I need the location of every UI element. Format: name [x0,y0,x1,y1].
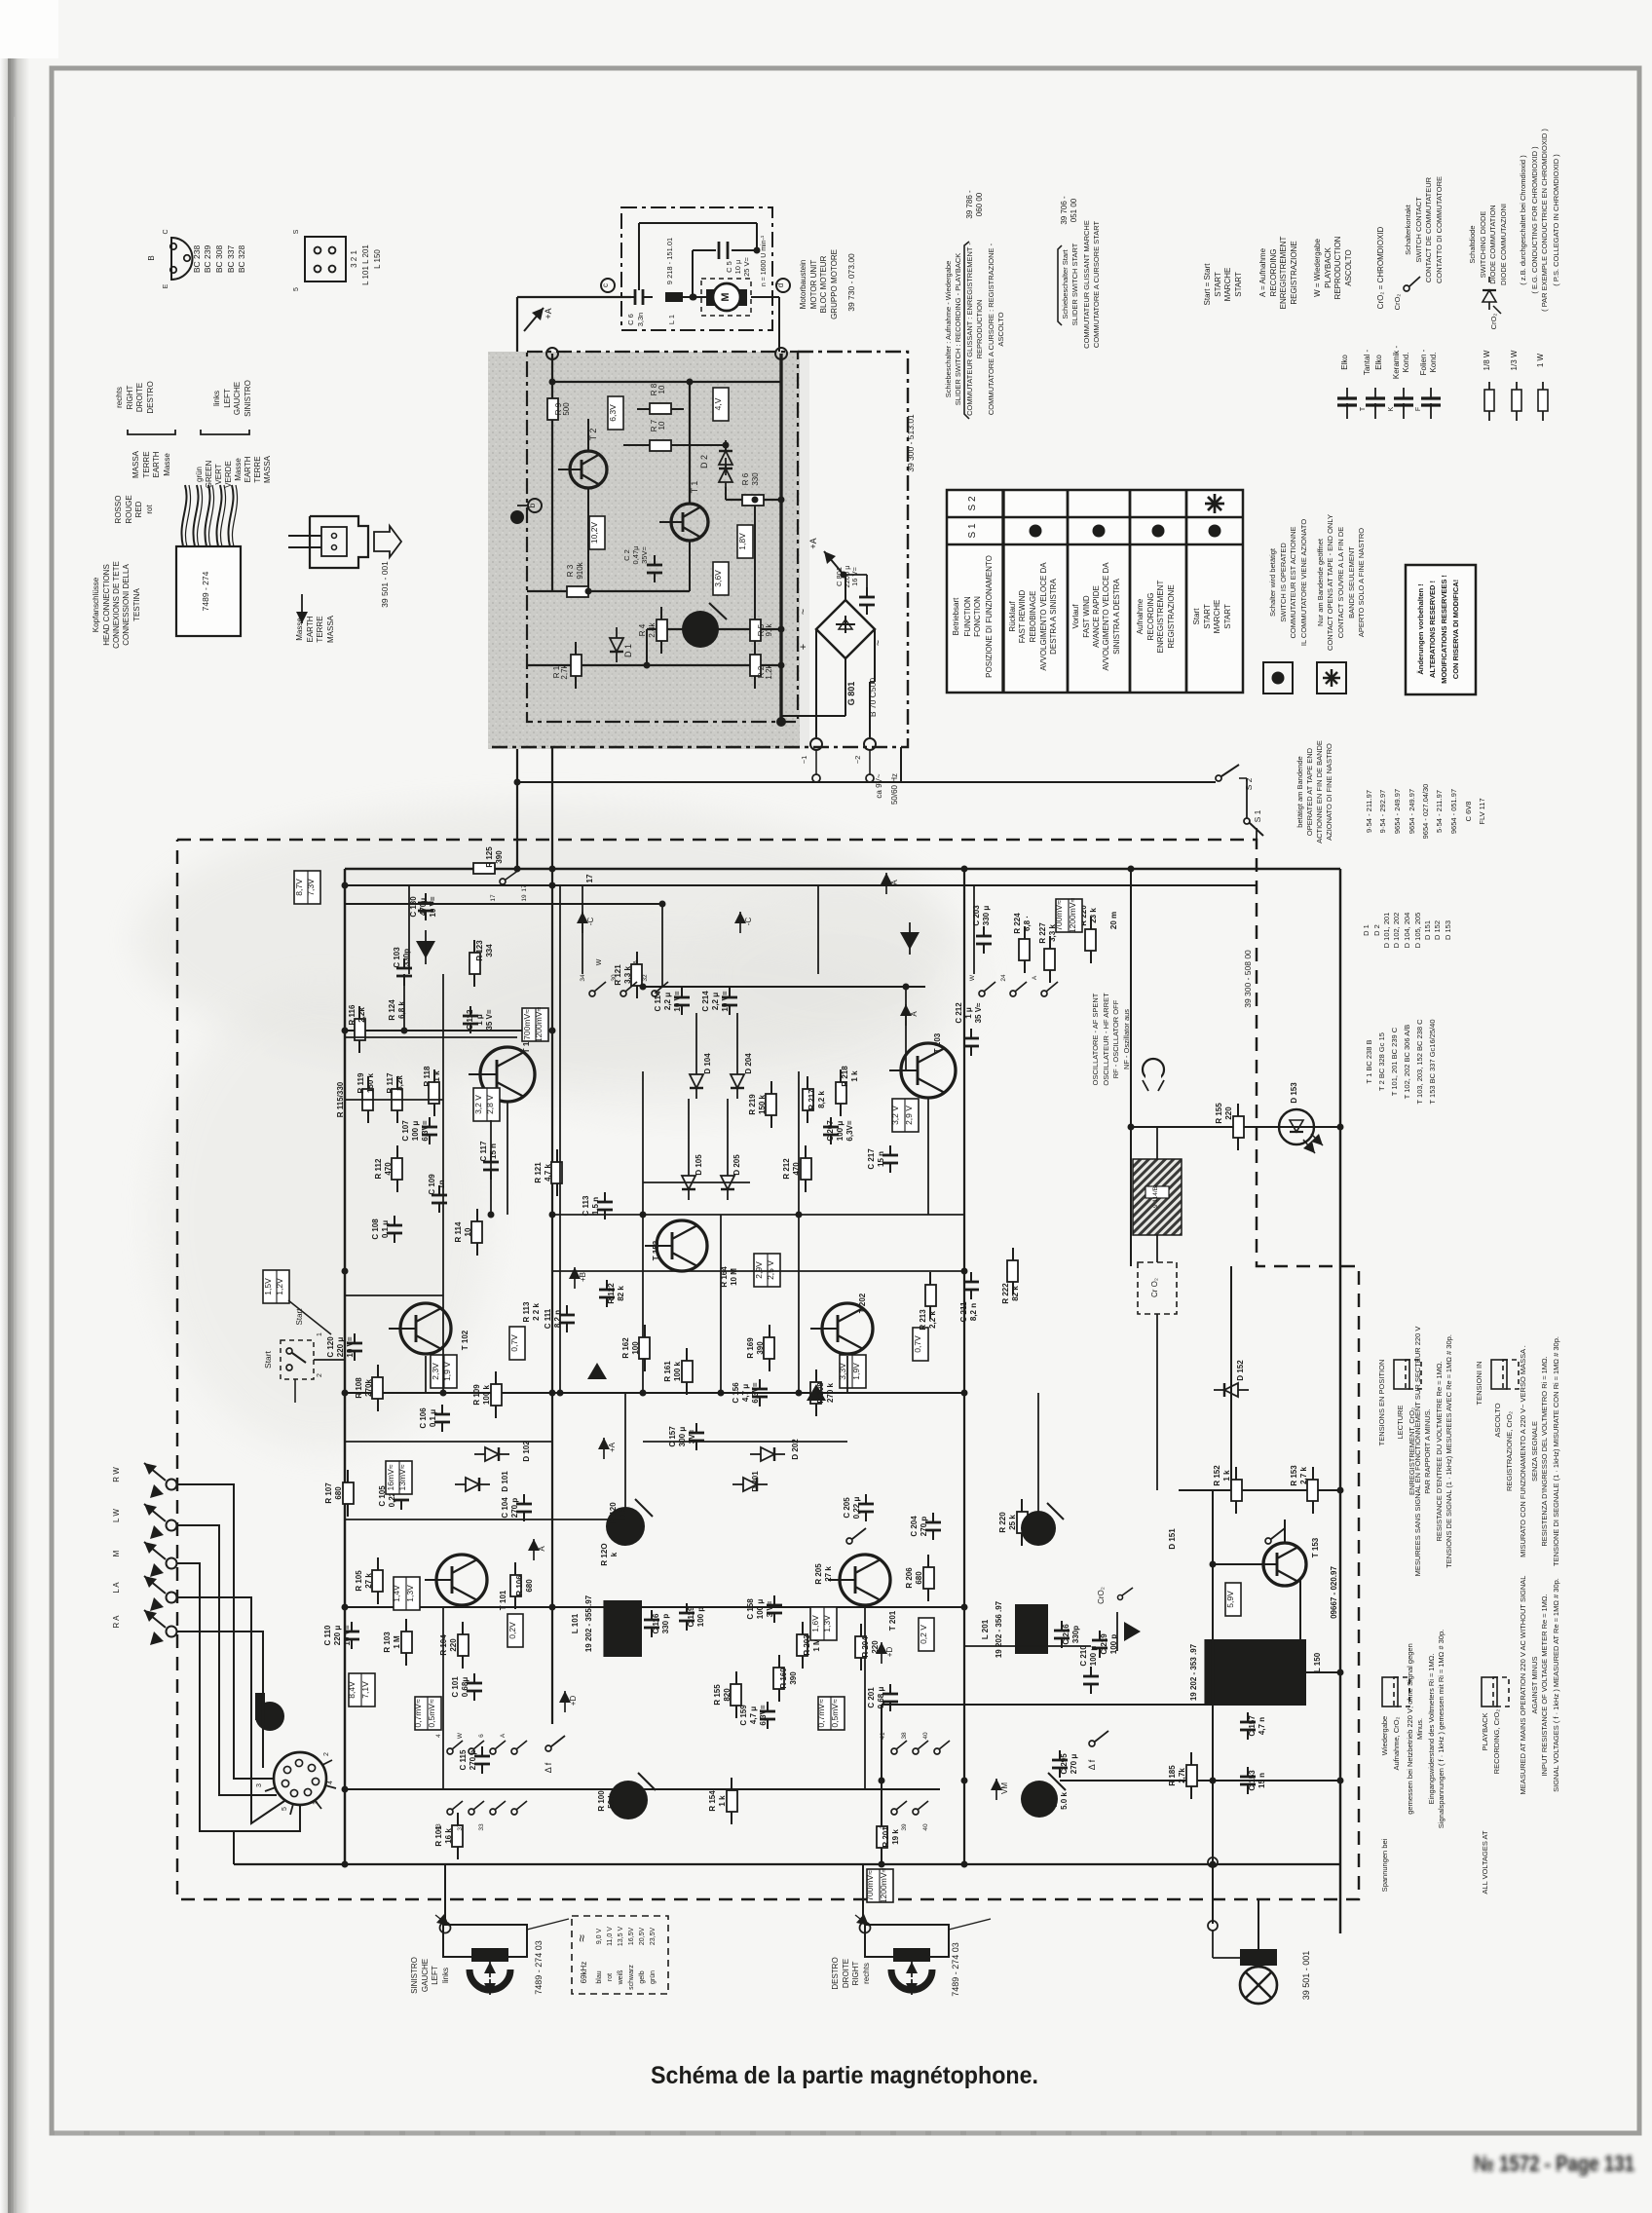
svg-text:R 2: R 2 [1050,1794,1059,1807]
svg-text:ENREGISTREMENT: ENREGISTREMENT [1279,237,1288,310]
svg-text:T 202: T 202 [858,1293,867,1313]
svg-text:2,7k: 2,7k [560,663,569,679]
svg-text:9654 - 051.97: 9654 - 051.97 [1449,789,1458,834]
svg-text:CrO₂ = CHROMDIOXID: CrO₂ = CHROMDIOXID [1376,226,1385,309]
svg-text:gelb: gelb [639,1970,646,1983]
svg-text:270k: 270k [364,1379,373,1397]
svg-text:330 μ: 330 μ [982,906,991,926]
svg-text:R 121: R 121 [534,1162,543,1183]
svg-text:blau: blau [596,1970,603,1983]
svg-text:R 116: R 116 [348,1004,357,1025]
svg-text:T 101: T 101 [499,1590,507,1610]
svg-text:rechts: rechts [862,1963,871,1984]
svg-text:rot: rot [607,1973,614,1981]
svg-text:0,7V: 0,7V [509,1334,519,1352]
svg-text:700mV≈: 700mV≈ [865,1870,875,1901]
svg-text:16mV≈: 16mV≈ [386,1464,395,1490]
svg-text:330: 330 [751,472,760,486]
svg-text:+D: +D [569,1696,578,1707]
svg-text:d: d [776,283,785,287]
svg-text:A: A [500,1733,507,1738]
svg-text:C 114: C 114 [654,991,662,1011]
svg-text:L 201: L 201 [981,1619,990,1639]
svg-text:39 501 - 001: 39 501 - 001 [380,561,390,608]
svg-text:33: 33 [478,1823,485,1831]
svg-text:17: 17 [490,894,497,902]
svg-text:19 k: 19 k [891,1829,900,1845]
svg-text:220 μ: 220 μ [333,1626,342,1646]
svg-text:Cr O₂: Cr O₂ [1150,1278,1159,1297]
svg-text:3,6V: 3,6V [713,570,723,587]
svg-text:35 V=: 35 V= [485,1009,494,1030]
svg-text:HEAD CONNECTIONS: HEAD CONNECTIONS [102,564,111,646]
svg-text:D 153: D 153 [1444,920,1452,940]
svg-text:100 μ: 100 μ [836,1121,845,1142]
svg-text:R 4: R 4 [638,623,647,636]
svg-text:16 V=: 16 V= [850,566,859,585]
svg-text:S: S [293,229,300,234]
svg-text:R 204: R 204 [861,1636,870,1658]
svg-text:11,0 V: 11,0 V [607,1927,614,1946]
svg-text:1,6V: 1,6V [810,1615,820,1632]
svg-text:R 115/330: R 115/330 [336,1081,345,1117]
svg-text:RESISTENZA D'INGRESSO DEL V: RESISTENZA D'INGRESSO DEL VOLTMETRO Ri ≈… [1540,1356,1549,1546]
svg-text:R 114: R 114 [454,1221,463,1242]
svg-text:C 110: C 110 [323,1625,332,1645]
svg-text:D 1: D 1 [1362,924,1370,936]
svg-text:L 101: L 101 [571,1613,580,1633]
svg-text:D 104, 204: D 104, 204 [1403,913,1411,949]
svg-text:7489 - 274: 7489 - 274 [201,571,210,611]
svg-text:R 153: R 153 [1290,1465,1298,1486]
svg-text:4: 4 [327,1781,334,1784]
svg-text:START: START [1234,272,1243,297]
svg-text:15 n: 15 n [1258,1773,1266,1788]
svg-text:FAST REWIND: FAST REWIND [1018,590,1027,644]
svg-text:1,5V: 1,5V [263,1278,273,1295]
svg-text:D 151: D 151 [1168,1528,1177,1550]
svg-text:Aufnahme, CrO₂: Aufnahme, CrO₂ [1392,1716,1401,1770]
svg-text:270 p: 270 p [920,1517,928,1537]
svg-text:9654 - 027.04/30: 9654 - 027.04/30 [1421,784,1430,840]
svg-text:051 00: 051 00 [1070,198,1078,222]
svg-text:334: 334 [485,944,494,957]
svg-text:8,2 k: 8,2 k [817,1091,826,1108]
svg-text:S 2: S 2 [967,496,978,510]
svg-text:27 k: 27 k [824,1566,833,1582]
svg-text:1,4V: 1,4V [392,1585,401,1602]
svg-text:10,2V: 10,2V [589,522,599,544]
svg-text:+D: +D [885,1647,894,1658]
svg-text:L 1: L 1 [667,315,676,324]
svg-text:100: 100 [631,1341,640,1355]
svg-text:C 211: C 211 [959,1301,968,1322]
svg-text:D 102: D 102 [522,1441,531,1462]
svg-text:Tantal -: Tantal - [1363,350,1371,376]
svg-text:+A: +A [544,308,553,319]
svg-text:DIODE COMMUTAZIONI: DIODE COMMUTAZIONI [1499,204,1508,285]
svg-text:C 106: C 106 [419,1407,428,1429]
svg-text:-C: -C [586,918,595,926]
svg-text:SENZA SEGNALE: SENZA SEGNALE [1530,1421,1539,1482]
svg-text:Rücklauf: Rücklauf [1008,601,1017,632]
svg-text:390: 390 [495,850,504,864]
svg-text:R 208: R 208 [816,1382,825,1404]
svg-text:Schaltdiode: Schaltdiode [1468,225,1477,263]
svg-text:TENSIONE DI SEGNALE (1 · 1k: TENSIONE DI SEGNALE (1 · 1kHz) MISURATE … [1552,1336,1560,1566]
svg-text:GRUPPO MOTORE: GRUPPO MOTORE [830,249,839,319]
svg-text:D 105: D 105 [695,1154,703,1176]
svg-text:16,5V: 16,5V [628,1928,635,1946]
svg-text:BC 239: BC 239 [203,245,212,274]
svg-text:C 201: C 201 [867,1687,876,1708]
svg-text:D 205: D 205 [732,1154,741,1176]
svg-text:7489 - 274 03: 7489 - 274 03 [951,1942,960,1997]
svg-text:SLIDER SWITCH START: SLIDER SWITCH START [1070,243,1079,325]
svg-text:100 p: 100 p [1109,1634,1118,1655]
svg-text:Schiebeschalter : Aufnahme - W: Schiebeschalter : Aufnahme - Wiedergabe [944,261,953,398]
svg-text:C 130: C 130 [409,896,418,918]
svg-text:TENSIONI IN: TENSIONI IN [1475,1361,1483,1405]
svg-text:17: 17 [585,874,594,882]
svg-text:6,3V=: 6,3V= [751,1382,760,1403]
svg-text:2,9V: 2,9V [754,1261,764,1279]
svg-text:17: 17 [521,884,528,892]
svg-text:R 162: R 162 [621,1337,630,1359]
svg-text:PLAYBACK: PLAYBACK [1324,247,1333,288]
svg-text:R 227: R 227 [1038,922,1047,944]
svg-text:Eingangswiderstand des Voltm: Eingangswiderstand des Voltmeters Ri ≈ 1… [1427,1654,1436,1805]
svg-text:VERDE: VERDE [224,461,233,488]
svg-text:4,7 k: 4,7 k [544,1164,552,1182]
svg-text:Start: Start [263,1350,273,1369]
svg-text:24: 24 [1000,974,1007,982]
svg-text:C 203: C 203 [972,905,981,926]
svg-text:TERRE: TERRE [316,616,324,642]
svg-text:2,4k: 2,4k [648,621,657,637]
svg-text:FUNCTION: FUNCTION [963,596,972,637]
svg-text:R 107: R 107 [324,1482,333,1504]
svg-text:RESISTANCE D'ENTREE DU VOLT: RESISTANCE D'ENTREE DU VOLTMETRE Re ≈ 1M… [1435,1361,1444,1541]
svg-text:D 204: D 204 [744,1053,753,1074]
svg-text:0,7V: 0,7V [913,1335,922,1353]
svg-text:T 102: T 102 [461,1330,469,1350]
svg-text:schwarz: schwarz [628,1965,635,1990]
svg-text:10: 10 [657,385,666,394]
svg-text:1 μ: 1 μ [475,1014,484,1026]
svg-text:3 V=: 3 V= [766,1600,774,1617]
svg-text:MARCHE: MARCHE [1223,268,1232,302]
svg-text:c: c [601,283,610,287]
svg-text:10 V=: 10 V= [721,991,730,1011]
svg-text:C 219: C 219 [1100,1633,1108,1655]
svg-text:470μ: 470μ [419,898,428,916]
svg-text:C 158: C 158 [746,1598,755,1620]
svg-text:D 153: D 153 [1290,1082,1298,1104]
svg-text:COMMUTATORE A CURSORE STAR: COMMUTATORE A CURSORE START [1092,221,1101,349]
svg-text:470: 470 [792,1162,801,1176]
svg-text:A = Aufnahme: A = Aufnahme [1258,247,1267,297]
svg-text:270 p: 270 p [469,1750,477,1771]
svg-text:C 207: C 207 [826,1120,835,1142]
svg-text:C: C [163,229,169,234]
svg-text:R 224: R 224 [1013,913,1022,934]
svg-text:CrO₂: CrO₂ [1393,294,1402,311]
svg-text:2,3V: 2,3V [431,1363,440,1380]
svg-text:START: START [1203,604,1212,629]
svg-text:C 156: C 156 [732,1382,740,1404]
svg-text:RIGHT: RIGHT [126,385,134,409]
svg-text:15 n: 15 n [877,1151,885,1167]
svg-text:ENREGISTREMENT: ENREGISTREMENT [1156,581,1165,654]
svg-text:C 204: C 204 [910,1516,919,1537]
svg-text:680: 680 [915,1571,923,1585]
svg-text:Masse: Masse [163,453,171,476]
svg-text:~: ~ [798,609,809,615]
svg-text:AVANCE RAPIDE: AVANCE RAPIDE [1092,585,1101,648]
svg-text:T 201: T 201 [888,1610,897,1631]
svg-text:COMMUTATORE A CURSORE : REGI: COMMUTATORE A CURSORE : REGISTRAZIONE - [987,243,995,415]
svg-text:C 109: C 109 [428,1174,436,1195]
svg-text:9 114/B: 9 114/B [1152,1186,1159,1208]
svg-text:EARTH: EARTH [152,451,161,477]
svg-text:k: k [610,1552,619,1557]
svg-text:C 113: C 113 [582,1195,590,1216]
svg-text:D 152: D 152 [1236,1360,1245,1381]
svg-text:10: 10 [657,421,666,430]
svg-text:Wiedergabe: Wiedergabe [1380,1716,1389,1755]
svg-text:L W: L W [112,1509,121,1522]
svg-text:680: 680 [334,1486,343,1500]
svg-text:~2: ~2 [853,756,862,765]
svg-text:T 2: T 2 [588,429,598,441]
svg-text:T 153: T 153 [1311,1537,1320,1557]
svg-text:10 V=: 10 V= [346,1336,355,1357]
svg-text:1k: 1k [619,1508,627,1517]
svg-text:SLIDER SWITCH : RECORDING - P: SLIDER SWITCH : RECORDING - PLAYBACK [954,253,962,406]
svg-text:1 k: 1 k [1222,1470,1231,1482]
svg-text:Masse: Masse [295,618,304,641]
svg-text:19: 19 [521,894,528,902]
svg-text:G 801: G 801 [846,682,856,706]
svg-text:9,0 V: 9,0 V [596,1929,603,1945]
svg-text:330p: 330p [1071,1626,1080,1643]
svg-text:8,2k: 8,2k [395,1075,404,1091]
svg-text:50 k: 50 k [607,1793,616,1809]
svg-text:3,2 V: 3,2 V [890,1106,900,1125]
svg-text:390: 390 [789,1671,798,1685]
svg-text:20,5V: 20,5V [639,1928,646,1946]
svg-text:grün: grün [650,1970,657,1984]
svg-text:9654 - 249.97: 9654 - 249.97 [1393,789,1402,834]
svg-text:K: K [1388,406,1395,411]
svg-text:ASCOLTO: ASCOLTO [996,312,1005,346]
svg-text:T 1 BC 238 B: T 1 BC 238 B [1365,1040,1373,1084]
svg-text:10: 10 [464,1227,472,1236]
svg-text:rot: rot [145,505,154,514]
svg-text:19 202 - 355 .97: 19 202 - 355 .97 [584,1594,593,1652]
svg-text:39 706 -: 39 706 - [1060,196,1069,225]
svg-text:16 k: 16 k [444,1828,453,1844]
svg-text:4,7 μ: 4,7 μ [741,1384,750,1402]
svg-text:R 118: R 118 [423,1066,432,1086]
svg-text:R 219: R 219 [748,1094,757,1115]
svg-text:№ 1572 - Page 131: № 1572 - Page 131 [1474,2151,1634,2176]
svg-text:( E.G. CONDUCTING FOR CHRO: ( E.G. CONDUCTING FOR CHROMDIOXID ) [1530,146,1539,294]
svg-text:1 W: 1 W [1536,353,1545,367]
svg-text:ROUGE: ROUGE [125,495,133,523]
svg-text:REPRODUCTION: REPRODUCTION [975,300,984,359]
svg-text:R 160: R 160 [779,1668,788,1689]
svg-text:MASSA: MASSA [326,615,335,643]
svg-text:1,5 n: 1,5 n [591,1197,600,1215]
svg-text:R 100: R 100 [597,1790,606,1812]
svg-text:( PAR EXEMPLE CONDUCTRICE: ( PAR EXEMPLE CONDUCTRICE EN CHROMDIOXID… [1540,129,1549,312]
svg-text:C 295: C 295 [1060,1753,1069,1775]
svg-text:4: 4 [435,1734,442,1738]
svg-text:R 108: R 108 [355,1377,363,1399]
svg-text:b: b [528,503,537,507]
svg-text:C 216: C 216 [1062,1624,1070,1645]
svg-text:COMMUTATEUR GLISSANT MARCHE: COMMUTATEUR GLISSANT MARCHE [1082,220,1091,349]
svg-text:32: 32 [642,974,649,982]
svg-text:2,7k: 2,7k [1178,1768,1186,1783]
svg-text:links: links [441,1968,450,1983]
svg-text:T 152: T 152 [652,1240,660,1260]
svg-text:B: B [147,255,156,260]
svg-text:40: 40 [922,1823,929,1831]
svg-text:ALL VOLTAGES AT: ALL VOLTAGES AT [1481,1830,1489,1894]
svg-text:+: + [798,644,809,650]
svg-text:700mV≈: 700mV≈ [522,1009,532,1040]
svg-text:R 154: R 154 [708,1790,717,1812]
svg-text:MOTOR UNIT: MOTOR UNIT [809,260,818,310]
svg-text:1/8 W: 1/8 W [1483,350,1491,370]
svg-text:DROITE: DROITE [135,383,144,412]
svg-text:~1: ~1 [800,756,808,765]
svg-text:220: 220 [449,1638,458,1652]
svg-text:SWITCH IS OPERATED: SWITCH IS OPERATED [1279,543,1288,622]
svg-text:L 101 L 201: L 101 L 201 [361,244,370,285]
svg-text:DESTRO: DESTRO [146,381,155,413]
svg-text:R 220: R 220 [998,1512,1007,1533]
svg-text:40: 40 [922,1732,929,1740]
svg-text:F: F [1415,407,1422,411]
svg-text:ALTERATIONS RESERVED !: ALTERATIONS RESERVED ! [1428,581,1437,678]
svg-text:weiß: weiß [618,1970,624,1986]
svg-text:Vorlauf: Vorlauf [1071,604,1080,629]
svg-text:C 157: C 157 [668,1426,677,1447]
svg-text:C 217: C 217 [867,1148,876,1170]
svg-text:CON RISERVA DI MODIFICA!: CON RISERVA DI MODIFICA! [1451,580,1460,679]
svg-text:1: 1 [313,1801,319,1805]
svg-text:C 107: C 107 [401,1120,410,1142]
svg-text:Schalterkontakt: Schalterkontakt [1404,204,1412,255]
svg-text:820: 820 [723,1688,732,1702]
svg-text:2,2 μ: 2,2 μ [711,993,720,1010]
svg-text:REBOBINAGE: REBOBINAGE [1029,591,1037,643]
svg-text:100 μ: 100 μ [1089,1646,1098,1667]
svg-text:C 6: C 6 [626,314,635,325]
svg-text:TENSIONS EN POSITION: TENSIONS EN POSITION [1377,1360,1386,1446]
svg-text:1n: 1n [437,1180,446,1188]
svg-text:≈: ≈ [574,1934,589,1942]
svg-text:C 116: C 116 [652,1613,660,1633]
svg-text:M: M [720,292,732,301]
svg-text:OSCILLATEUR - HF ARRET: OSCILLATEUR - HF ARRET [1102,993,1110,1086]
svg-text:10 V=: 10 V= [673,991,682,1011]
svg-text:Start: Start [295,1308,304,1326]
svg-text:ROSSO: ROSSO [114,496,123,524]
svg-text:POSIZIONE DI FUNZIONAMENTO: POSIZIONE DI FUNZIONAMENTO [985,555,994,678]
svg-text:L 150: L 150 [1313,1652,1322,1672]
svg-text:R 124: R 124 [388,999,396,1021]
svg-text:R 161: R 161 [663,1361,672,1382]
svg-text:150 k: 150 k [758,1094,767,1114]
svg-text:S 1: S 1 [967,523,978,538]
svg-text:Elko: Elko [1374,355,1383,370]
svg-text:LEFT: LEFT [431,1966,439,1985]
svg-text:T 101, 201 BC 239 C: T 101, 201 BC 239 C [1390,1027,1399,1096]
svg-text:50/60 Hz: 50/60 Hz [890,773,899,805]
svg-text:100 μ: 100 μ [411,1121,420,1142]
svg-text:D 104: D 104 [703,1053,712,1074]
svg-text:T 203: T 203 [933,1032,942,1053]
svg-text:C 119: C 119 [687,1606,695,1627]
svg-text:MASSA: MASSA [263,455,272,483]
svg-text:Δ f: Δ f [1087,1759,1097,1770]
svg-text:R 105: R 105 [355,1570,363,1592]
svg-text:1 μ: 1 μ [964,1007,973,1019]
svg-text:TESTINA: TESTINA [132,587,141,620]
svg-text:R 12O: R 12O [600,1543,609,1565]
svg-text:82 k: 82 k [617,1286,625,1301]
svg-text:CrO₂: CrO₂ [1097,1587,1106,1604]
svg-text:A: A [910,1011,919,1017]
svg-text:APERTO SOLO A FINE NASTRO: APERTO SOLO A FINE NASTRO [1357,528,1366,637]
svg-text:C 115: C 115 [459,1749,468,1770]
svg-text:10 V=: 10 V= [429,896,437,917]
svg-text:4,V: 4,V [713,397,723,410]
svg-text:D 102, 202: D 102, 202 [1392,913,1401,949]
svg-text:D 1: D 1 [623,644,633,657]
svg-text:5: 5 [293,287,300,291]
svg-text:R 121: R 121 [614,964,622,986]
svg-text:34: 34 [580,974,586,982]
svg-text:EARTH: EARTH [244,456,252,482]
svg-text:TENSIONS DE SIGNAL (1 · 1kH: TENSIONS DE SIGNAL (1 · 1kHz) MESUREES A… [1445,1334,1453,1568]
svg-text:RED: RED [134,501,143,517]
svg-text:CrO₂: CrO₂ [1489,314,1498,330]
svg-text:10 μ: 10 μ [733,260,742,275]
svg-text:R 155: R 155 [713,1684,722,1706]
svg-text:0,2V: 0,2V [507,1622,517,1639]
svg-text:6: 6 [478,1734,485,1738]
svg-text:RECORDING: RECORDING [1269,249,1278,297]
svg-text:W: W [969,974,976,981]
svg-text:S 2: S 2 [1244,777,1254,790]
svg-text:3,3n: 3,3n [636,313,645,327]
svg-text:3 2 1: 3 2 1 [350,250,358,268]
svg-text:CONTATTO DI COMMUTATORE: CONTATTO DI COMMUTATORE [1435,176,1444,283]
svg-text:330 p: 330 p [661,1614,670,1634]
svg-text:C 2: C 2 [622,549,631,561]
svg-text:Betriebsart: Betriebsart [952,597,960,635]
svg-text:MISURATO CON FUNZIONAMENTO: MISURATO CON FUNZIONAMENTO A 220 V~ VERS… [1519,1345,1527,1557]
svg-text:R 152: R 152 [1213,1465,1221,1486]
svg-text:Start: Start [1192,608,1201,625]
svg-text:DROITE: DROITE [842,1959,850,1988]
